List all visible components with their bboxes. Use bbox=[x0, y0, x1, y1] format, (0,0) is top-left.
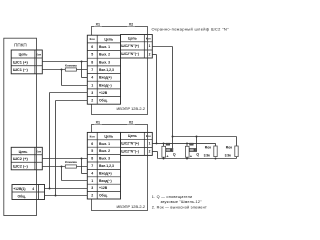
svg-text:Вкл.1,2,3: Вкл.1,2,3 bbox=[99, 68, 114, 72]
svg-text:3: 3 bbox=[91, 186, 93, 190]
svg-text:2: 2 bbox=[149, 52, 151, 56]
svg-text:Rок: Rок bbox=[226, 145, 233, 149]
svg-text:Цепь: Цепь bbox=[19, 53, 28, 57]
svg-text:Клемма: Клемма bbox=[65, 64, 77, 68]
resistor Rок 1 bbox=[214, 146, 217, 157]
svg-text:Общ.: Общ. bbox=[18, 195, 27, 199]
svg-text:1. Q — оповещатели: 1. Q — оповещатели bbox=[152, 195, 193, 199]
svg-text:1: 1 bbox=[91, 83, 93, 87]
svg-text:5: 5 bbox=[91, 149, 93, 153]
svg-text:1: 1 bbox=[149, 142, 151, 146]
svg-text:4: 4 bbox=[32, 187, 34, 191]
wire branch down to X1.1 bbox=[61, 70, 63, 86]
svg-text:Вых. 2: Вых. 2 bbox=[99, 149, 110, 153]
wire +12В to lower X1.3 bbox=[45, 188, 88, 190]
wire upper X2.1 down bbox=[152, 46, 172, 48]
svg-text:Вход(+): Вход(+) bbox=[99, 76, 112, 80]
device block 2 ИВЭПР outline bbox=[92, 125, 148, 211]
wire branch down to X1.4 bbox=[81, 62, 83, 78]
junction dot ШС2− branch bbox=[61, 166, 63, 168]
svg-text:7: 7 bbox=[91, 68, 93, 72]
svg-text:Охранно-пожарный шлейф ШС2 "N": Охранно-пожарный шлейф ШС2 "N" bbox=[152, 26, 230, 31]
svg-text:3.9к: 3.9к bbox=[204, 154, 211, 158]
svg-text:+: + bbox=[166, 155, 168, 159]
terminal table ШС2 bbox=[11, 147, 42, 170]
svg-text:4: 4 bbox=[91, 171, 93, 175]
svg-text:2. Rок — выносной элемент: 2. Rок — выносной элемент bbox=[152, 206, 207, 210]
svg-text:Вход(+): Вход(+) bbox=[99, 171, 112, 175]
svg-text:Rок: Rок bbox=[205, 145, 212, 149]
svg-text:1: 1 bbox=[91, 179, 93, 183]
svg-text:Клемма: Клемма bbox=[65, 160, 77, 164]
wire bus B bbox=[152, 142, 215, 144]
svg-text:Вых. 2: Вых. 2 bbox=[99, 53, 110, 57]
svg-text:Вых. 3: Вых. 3 bbox=[99, 60, 110, 64]
wire ШС1− through resistor to X1.7 bbox=[42, 69, 87, 71]
svg-text:3: 3 bbox=[91, 91, 93, 95]
junction dot bus B upper feed bbox=[156, 142, 158, 144]
svg-text:Цепь: Цепь bbox=[128, 36, 137, 40]
sounder Q1 Шмель-12 bbox=[163, 143, 165, 146]
svg-text:8: 8 bbox=[91, 60, 93, 64]
svg-text:Общ.: Общ. bbox=[99, 194, 108, 198]
svg-text:Q: Q bbox=[173, 152, 176, 156]
wire branch down to lower X1.4 bbox=[81, 159, 83, 174]
connector X2 table block 2 bbox=[121, 132, 153, 155]
svg-text:2: 2 bbox=[91, 194, 93, 198]
svg-text:X1: X1 bbox=[96, 23, 100, 27]
sounder Q2 Шмель-12 bbox=[186, 143, 188, 146]
svg-text:6: 6 bbox=[91, 45, 93, 49]
wire box edge over tables bbox=[36, 50, 38, 74]
junction dot ШС2+ branch bbox=[81, 158, 83, 160]
svg-text:Цепь: Цепь bbox=[19, 150, 28, 154]
svg-text:2: 2 bbox=[91, 99, 93, 103]
svg-text:Вход(−): Вход(−) bbox=[99, 83, 112, 87]
svg-text:ШС2"N"(+): ШС2"N"(+) bbox=[121, 44, 139, 48]
svg-text:X1: X1 bbox=[96, 121, 100, 125]
svg-text:ШС2 (−): ШС2 (−) bbox=[13, 164, 29, 169]
wire Общ rail upper bbox=[56, 100, 88, 102]
terminal table +12В/Общ bbox=[12, 185, 45, 200]
svg-text:X2: X2 bbox=[129, 23, 133, 27]
wire ШС2− through resistor to lower X1.7 bbox=[42, 166, 87, 168]
svg-text:ШС1 (−): ШС1 (−) bbox=[13, 67, 29, 72]
junction dot ШС1+ branch bbox=[81, 61, 83, 63]
svg-text:Вых. 1: Вых. 1 bbox=[99, 142, 110, 146]
junction dot bus A start bbox=[172, 136, 174, 138]
svg-text:Q: Q bbox=[196, 152, 199, 156]
device block 1 ИВЭПР outline bbox=[92, 27, 148, 115]
svg-text:Цепь: Цепь bbox=[104, 37, 113, 41]
wire ШС2+ to lower X1.8 bbox=[42, 158, 87, 160]
svg-text:+: + bbox=[190, 155, 192, 159]
svg-text:Общ.: Общ. bbox=[99, 99, 108, 103]
wire ШС1+ to X1.8 bbox=[42, 61, 87, 63]
svg-text:Кон: Кон bbox=[90, 37, 95, 41]
svg-text:ШС2"N"(−): ШС2"N"(−) bbox=[121, 52, 139, 56]
svg-text:ШС2 (+): ШС2 (+) bbox=[13, 156, 29, 161]
svg-text:Цепь: Цепь bbox=[104, 134, 113, 138]
svg-text:Кон: Кон bbox=[146, 36, 151, 40]
svg-text:ИВЭПР 12В-2-2: ИВЭПР 12В-2-2 bbox=[116, 204, 145, 209]
wire upper X2.2 down bbox=[152, 54, 156, 56]
connector X2 label block 2 bbox=[127, 121, 135, 124]
svg-text:звуковые "Шмель-12": звуковые "Шмель-12" bbox=[161, 200, 203, 204]
wire Общ to lower X1.2 bbox=[45, 195, 88, 197]
wire +12В rail upper bbox=[50, 92, 88, 94]
box ППКП panel bbox=[4, 38, 37, 215]
svg-text:ШС1 (+): ШС1 (+) bbox=[13, 59, 29, 64]
svg-text:X2: X2 bbox=[129, 121, 133, 125]
svg-text:Вых. 1: Вых. 1 bbox=[99, 45, 110, 49]
wire branch down to lower X1.1 bbox=[61, 167, 63, 181]
junction dot bus A to sounder2 bbox=[196, 136, 198, 138]
svg-text:Кон: Кон bbox=[146, 134, 151, 138]
svg-text:ШС2"N"(+): ШС2"N"(+) bbox=[121, 142, 139, 146]
junction dot Общ rail bbox=[55, 195, 57, 197]
connector X1 label block 1 bbox=[94, 23, 102, 26]
svg-text:+12В(1): +12В(1) bbox=[13, 187, 25, 191]
svg-text:+12В: +12В bbox=[99, 91, 108, 95]
wire lower X2.2 to bottom bus bbox=[152, 151, 157, 153]
svg-text:ИВЭПР 12В-2-2: ИВЭПР 12В-2-2 bbox=[116, 106, 145, 111]
junction dot +12В rail bbox=[49, 188, 51, 190]
svg-text:Кон: Кон bbox=[90, 134, 95, 138]
connector X1 label block 2 bbox=[94, 121, 102, 124]
svg-text:5: 5 bbox=[91, 53, 93, 57]
terminal table ШС1 bbox=[11, 50, 42, 74]
connector X1 table block 2 bbox=[87, 132, 120, 199]
svg-text:+12В: +12В bbox=[99, 186, 108, 190]
resistor Клемма upper bbox=[65, 68, 76, 71]
svg-text:Вход(−): Вход(−) bbox=[99, 179, 112, 183]
svg-text:6: 6 bbox=[91, 142, 93, 146]
svg-text:7: 7 bbox=[91, 164, 93, 168]
junction dot ШС1− branch bbox=[61, 69, 63, 71]
svg-text:1: 1 bbox=[149, 44, 151, 48]
wire bus A bbox=[173, 136, 237, 138]
svg-text:Цепь: Цепь bbox=[128, 134, 137, 138]
resistor Клемма lower bbox=[65, 165, 76, 168]
svg-text:8: 8 bbox=[91, 157, 93, 161]
svg-text:Вых. 3: Вых. 3 bbox=[99, 157, 110, 161]
svg-text:ШС2"N"(−): ШС2"N"(−) bbox=[121, 150, 139, 154]
svg-text:Вкл.1,2,3: Вкл.1,2,3 bbox=[99, 164, 114, 168]
connector X2 label block 1 bbox=[127, 23, 135, 26]
svg-text:3.9к: 3.9к bbox=[225, 154, 232, 158]
connector X2 table block 1 bbox=[121, 35, 153, 59]
wire bottom bus bbox=[158, 158, 237, 160]
svg-text:2: 2 bbox=[149, 150, 151, 154]
svg-text:ППКП: ППКП bbox=[14, 43, 27, 48]
svg-text:4: 4 bbox=[91, 76, 93, 80]
connector X1 table block 1 bbox=[87, 35, 120, 104]
resistor Rок 2 bbox=[235, 146, 238, 157]
